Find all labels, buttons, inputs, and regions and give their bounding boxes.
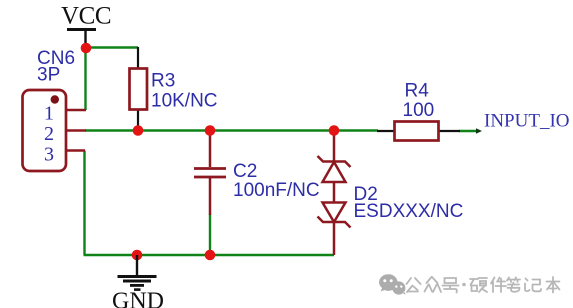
硬 [470,278,487,292]
diode D2 (dual TVS) [318,131,464,255]
D2 top pin [333,131,336,161]
R4 right pin [438,130,460,132]
svg-text:C2: C2 [233,161,257,182]
众 [425,277,442,292]
svg-text:10K/NC: 10K/NC [151,91,218,112]
resistor R4 [377,81,460,141]
svg-text:100: 100 [403,100,435,121]
svg-text:3P: 3P [37,65,60,86]
svg-text:INPUT_IO: INPUT_IO [484,111,570,132]
pin 2 stub [65,129,86,132]
capacitor C2 [194,131,320,215]
svg-text:1: 1 [44,103,54,125]
wire main horizontal net (pin 2 to R4) [85,129,378,131]
junction D2 top [329,125,340,136]
pin 1 stub [65,109,86,112]
wire C2 bottom to ground bus [209,214,211,255]
junction VCC node [81,43,92,54]
svg-text:ESDXXX/NC: ESDXXX/NC [354,201,464,222]
wire bottom ground bus [84,254,335,256]
middle link [333,182,336,203]
junction R3 bottom [133,125,144,136]
号 [443,278,459,293]
pin 1 marker dot [51,95,59,103]
本 [547,277,560,293]
wechat icon [379,274,406,294]
ground [112,255,164,308]
wire R4 right to net label [459,130,479,132]
件 [491,278,506,293]
net label INPUT_IO [476,111,570,134]
D2 bottom pin [333,222,336,255]
junction C2 bottom [205,250,216,261]
· [462,283,466,287]
笔 [507,278,520,292]
watermark [379,274,560,294]
公 [407,278,421,292]
svg-text:2: 2 [44,123,54,145]
R3 top pin [137,47,139,69]
top zener cathode bar [318,156,351,167]
R4 left pin [377,130,395,132]
wire VCC node to R3 top [85,46,138,48]
wire VCC node down to pin 1 [84,47,86,110]
top diode triangle [323,162,346,182]
wire pin 3 down [83,151,85,256]
resistor R3 [130,47,218,130]
svg-text:100nF/NC: 100nF/NC [233,180,320,201]
svg-text:3: 3 [44,144,54,166]
记 [525,279,541,292]
svg-text:R3: R3 [151,71,175,92]
power port VCC [61,3,111,48]
svg-text:VCC: VCC [61,3,111,30]
bottom zener cathode bar [318,217,351,228]
junction C2 top [205,125,216,136]
junction GND tap [132,250,143,261]
bottom diode triangle [323,203,346,223]
connector CN6 [23,48,87,171]
pin 3 stub [65,149,85,152]
R3 bottom pin [137,109,139,130]
svg-text:GND: GND [112,289,164,308]
svg-text:R4: R4 [405,81,430,102]
